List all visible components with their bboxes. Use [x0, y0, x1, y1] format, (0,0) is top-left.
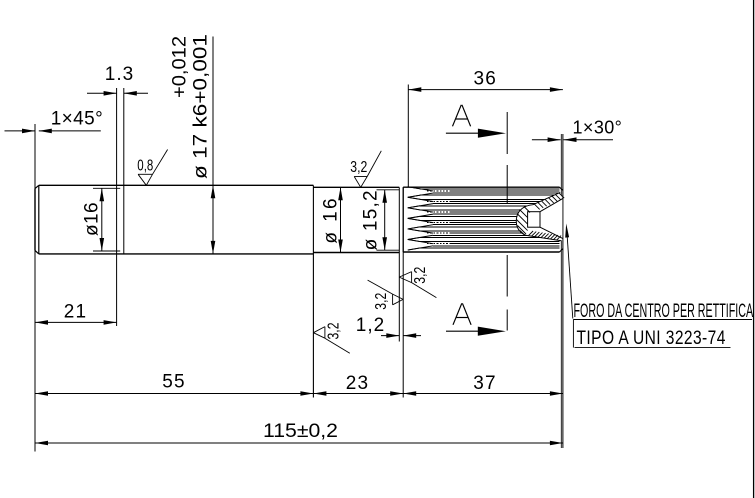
- svg-text:0,8: 0,8: [137, 158, 153, 175]
- dimension 36 spline length: [408, 69, 563, 188]
- svg-text:55: 55: [162, 372, 186, 393]
- dimension 55: [35, 372, 313, 396]
- svg-text:36: 36: [474, 69, 498, 90]
- drawing frame right border: [753, 0, 755, 498]
- wire left end face extension line: [34, 124, 36, 452]
- svg-text:ø 15,2: ø 15,2: [360, 189, 381, 250]
- svg-text:1×30°: 1×30°: [573, 118, 623, 138]
- svg-text:3,2: 3,2: [326, 322, 343, 339]
- roughness 3,2 on mid phi16 top: [350, 151, 381, 188]
- leader to FORO text with arrowhead: [565, 224, 573, 319]
- dimension 1x30 end chamfer: [532, 118, 622, 143]
- spline teeth lines: [408, 187, 560, 250]
- roughness 3,2 on step face (x=313): [313, 322, 349, 353]
- svg-text:1×45°: 1×45°: [51, 109, 103, 130]
- dimension 21: [35, 302, 117, 325]
- svg-text:37: 37: [473, 373, 497, 394]
- end face / right extension line: [561, 134, 563, 448]
- svg-text:23: 23: [346, 373, 370, 394]
- dimension phi16 left (vertical): [82, 188, 121, 251]
- roughness 3,2 left of relief groove (apex right): [368, 280, 404, 310]
- svg-text:3,2: 3,2: [350, 159, 367, 176]
- svg-text:3,2: 3,2: [373, 293, 390, 310]
- dimension 37: [403, 373, 563, 396]
- svg-text:TIPO A UNI 3223-74: TIPO A UNI 3223-74: [577, 327, 726, 349]
- dimension 23: [313, 373, 403, 396]
- svg-text:1,2: 1,2: [356, 315, 385, 336]
- groove 1.3 vertical lines: [117, 88, 124, 326]
- center hole outline: break line, pilot square, cone: [516, 192, 563, 240]
- relief groove verticals (1,2 wide): [399, 187, 403, 397]
- svg-text:1.3: 1.3: [105, 64, 134, 85]
- svg-text:21: 21: [64, 302, 88, 323]
- step phi17/phi16 vertical + extension down: [312, 185, 314, 397]
- spline root extension lines (phi 15,2): [377, 190, 400, 250]
- dimension 1.3 (groove width): [87, 64, 148, 96]
- spline end chamfer 1x30 and end face: [560, 187, 563, 252]
- dimension 115 +/-0,2 overall: [35, 421, 563, 445]
- dimension phi17 k6 with tolerance (rotated label): [170, 34, 216, 254]
- spline section outer edges: [403, 187, 559, 252]
- dimension 1,2 relief groove: [356, 315, 421, 338]
- section arrow A bottom: [446, 303, 506, 336]
- note FORO DA CENTRO PER RETTIFICA: [573, 301, 753, 349]
- dimension 1x45 chamfer: [5, 109, 104, 134]
- center hole white mask: [516, 193, 562, 241]
- section line A-A dashed: [506, 112, 508, 331]
- shaft left chamfered end: face, chamfer edges: [35, 185, 39, 254]
- dimension phi15,2 spline root (rotated): [360, 189, 387, 250]
- svg-text:FORO DA CENTRO PER RETTIFICA: FORO DA CENTRO PER RETTIFICA: [574, 301, 754, 322]
- center hole hatching: [517, 193, 565, 240]
- section arrow A top: [446, 105, 506, 138]
- svg-text:ø 17 k6+0,001: ø 17 k6+0,001: [191, 34, 212, 179]
- svg-text:3,2: 3,2: [412, 267, 429, 284]
- mid phi16 section outline: [313, 187, 399, 252]
- roughness 0,8 on phi17: [137, 150, 167, 186]
- roughness 3,2 right of relief groove (apex left): [399, 267, 436, 298]
- dimension phi16 mid (rotated): [321, 187, 343, 252]
- svg-text:ø16: ø16: [82, 202, 103, 236]
- svg-text:115±0,2: 115±0,2: [263, 421, 338, 442]
- shaft body phi16-left + phi17 section outline: [39, 185, 314, 254]
- svg-text:+0,012: +0,012: [170, 36, 191, 98]
- svg-text:ø 16: ø 16: [321, 196, 342, 244]
